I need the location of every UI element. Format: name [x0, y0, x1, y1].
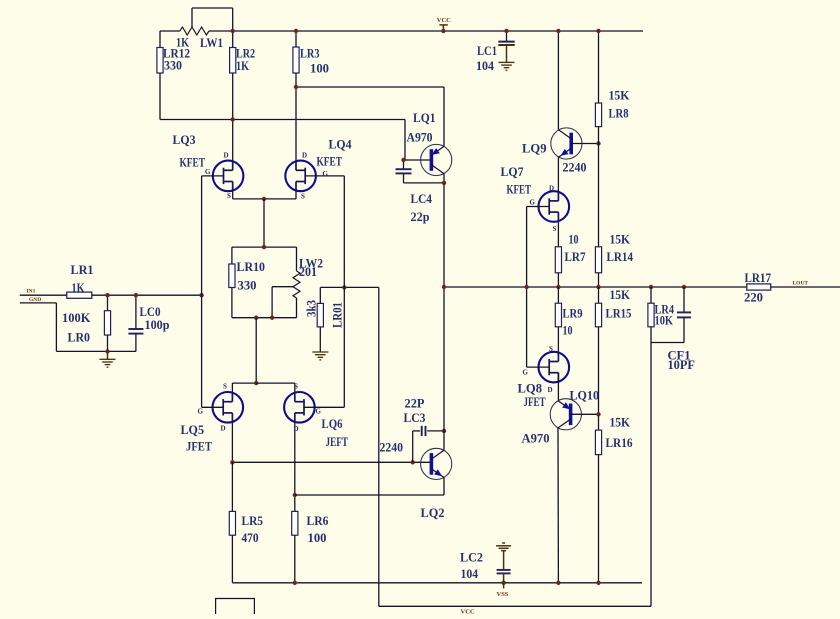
svg-text:D: D: [221, 425, 226, 433]
junction feedback/gate column: [342, 285, 346, 289]
ground LR01: [312, 352, 328, 360]
power symbol above LC2: [496, 543, 511, 551]
svg-text:2240: 2240: [563, 160, 587, 175]
potentiometer LW2 201: [293, 271, 300, 298]
resistor LR9 10: [555, 303, 561, 327]
wire VCC to LQ9 collector: [557, 31, 559, 130]
wire LW1 wiper top: [192, 7, 233, 9]
capacitor LC1 104: [498, 41, 514, 43]
wire LQ1 base: [405, 159, 431, 161]
junction LQ10 collector/VSS rail: [556, 581, 560, 585]
svg-text:15K: 15K: [610, 232, 631, 247]
junction LR2/top rail: [231, 29, 235, 33]
power VCC top: [439, 25, 447, 31]
junction LR3/LQ4 drain: [294, 85, 298, 89]
svg-text:LW1: LW1: [200, 35, 223, 50]
svg-text:D: D: [224, 152, 229, 160]
wire LQ2 emitter down: [443, 478, 445, 496]
svg-text:220: 220: [744, 290, 763, 305]
junction LQ5/LQ6 sources: [254, 381, 258, 385]
wire output rail: [444, 286, 747, 288]
wire LQ7 gate: [527, 206, 550, 208]
junction input/gate column: [199, 293, 203, 297]
wire LQ5 drain to LQ2 base: [232, 461, 430, 463]
junction LQ9 collector/top rail: [556, 29, 560, 33]
resistor LR01 3k3: [317, 303, 323, 327]
wire LR2 bottom lead: [232, 73, 234, 120]
resistor LR5 470: [229, 511, 235, 535]
svg-text:S: S: [294, 383, 298, 391]
wire LQ9 emitter to LQ7 drain: [557, 157, 559, 191]
svg-text:LQ2: LQ2: [421, 505, 445, 520]
wire LW2 wiper down: [271, 287, 273, 318]
junction LR16/VSS rail: [596, 581, 600, 585]
junction VCC/top rail: [441, 29, 445, 33]
wire LC3 left lead: [413, 430, 420, 432]
resistor LR0 100K: [104, 311, 110, 335]
junction LQ3/LQ4 sources: [262, 197, 266, 201]
svg-text:LR14: LR14: [607, 249, 634, 264]
junction LR3/top rail: [294, 29, 298, 33]
wire LQ4 source to tail: [264, 198, 296, 200]
svg-text:104: 104: [461, 566, 479, 581]
svg-text:LR15: LR15: [606, 306, 632, 321]
resistor LR16 15K: [595, 430, 601, 455]
wire LR3 bottom lead: [295, 73, 297, 87]
wire LQ5 gate: [202, 406, 224, 408]
wire LQ4 drain up to LR3: [295, 87, 297, 161]
wire VSS stub: [503, 583, 505, 589]
svg-text:S: S: [301, 193, 305, 201]
svg-text:G: G: [205, 168, 211, 176]
wire VSS rail: [232, 582, 642, 584]
svg-text:G: G: [316, 408, 322, 416]
svg-text:10: 10: [569, 232, 579, 247]
resistor LR6 100: [292, 511, 298, 535]
wire LR10 bottom lead: [231, 288, 233, 318]
wire LR6 top lead: [294, 495, 296, 511]
svg-text:S: S: [549, 345, 553, 353]
wire LQ6 source to tail: [256, 382, 295, 384]
wire LQ5 source: [231, 383, 233, 392]
junction bottom tail: [254, 316, 258, 320]
svg-text:S: S: [553, 225, 557, 233]
wire LW2 wiper: [272, 286, 293, 288]
resistor LR4 10K: [648, 303, 654, 327]
svg-text:S: S: [227, 192, 231, 200]
junction ground bus: [105, 349, 109, 353]
wire degeneration top: [232, 246, 297, 248]
wire LQ10 collector down to VSS rail: [557, 428, 559, 583]
svg-text:LR3: LR3: [300, 46, 320, 61]
svg-text:KFET: KFET: [317, 154, 343, 169]
junction LR0 top: [105, 293, 109, 297]
wire LQ4 source: [295, 191, 297, 199]
connector box bottom-left: [216, 599, 255, 615]
wire LQ1 emitter top: [443, 87, 445, 146]
wire feedback takeoff down: [650, 343, 652, 607]
wire LQ5 drain: [231, 423, 233, 463]
svg-text:10PF: 10PF: [668, 357, 696, 372]
mosfet LQ8 JFET: [539, 352, 570, 383]
transistor LQ10 A970 PNP: [550, 399, 581, 430]
junction LQ9 base: [596, 141, 600, 145]
svg-text:LC3: LC3: [404, 410, 426, 425]
svg-text:G: G: [523, 369, 529, 377]
junction LQ3 drain/bias rail: [231, 117, 235, 121]
wire LR3 top lead: [295, 31, 297, 47]
wire LQ6 source: [294, 383, 296, 392]
wire LC4 top lead: [403, 160, 405, 169]
junction LR4 top: [649, 285, 653, 289]
wire LR5 top lead: [231, 462, 233, 511]
svg-text:KFET: KFET: [180, 155, 206, 170]
junction LC3 / collector column: [442, 429, 446, 433]
svg-text:1K: 1K: [72, 280, 86, 295]
svg-text:201: 201: [299, 264, 317, 279]
wire LQ6 drain: [294, 423, 296, 495]
svg-text:LQ10: LQ10: [570, 388, 600, 403]
wire LQ1 collector down to output rail: [443, 174, 445, 287]
wire LQ8 drain to LQ10 emitter: [557, 373, 559, 400]
svg-text:330: 330: [238, 278, 257, 293]
junction wiper: [270, 316, 274, 320]
wire LR0 bottom lead: [107, 335, 109, 351]
junction VAS output: [442, 285, 446, 289]
svg-text:3k3: 3k3: [304, 300, 319, 317]
wire LQ5 source to tail: [232, 382, 256, 384]
svg-text:VCC: VCC: [437, 17, 451, 24]
svg-text:LR6: LR6: [307, 513, 329, 528]
wire LW2 top lead: [296, 247, 298, 271]
wire LQ3 drain: [232, 120, 234, 161]
wire LC2 top lead: [503, 551, 505, 571]
wire to input ground: [107, 351, 109, 359]
wire LR12 bottom lead: [159, 73, 161, 120]
wire collector column to LQ2: [443, 287, 445, 450]
junction CF1 top: [682, 285, 686, 289]
junction gate column / output rail: [524, 285, 528, 289]
wire LQ3 gate: [202, 175, 224, 177]
wire bias rail to LQ1 base: [160, 119, 405, 121]
wire LW1 wiper down: [232, 8, 234, 31]
svg-text:LR7: LR7: [565, 249, 586, 264]
svg-text:1K: 1K: [236, 58, 250, 73]
wire LR15 top lead: [598, 287, 600, 303]
svg-text:G: G: [323, 170, 329, 178]
svg-text:15K: 15K: [609, 88, 631, 103]
capacitor CF1 10PF: [677, 312, 691, 317]
svg-text:IN1: IN1: [27, 289, 36, 295]
svg-text:LR0: LR0: [68, 330, 91, 345]
wire feedback column down: [378, 287, 380, 606]
wire LQ4 gate to feedback column: [305, 175, 344, 177]
svg-text:D: D: [548, 386, 553, 394]
wire gate column LQ7-LQ8: [526, 207, 528, 368]
ground input: [100, 359, 116, 367]
svg-text:10K: 10K: [655, 313, 674, 328]
wire LR4/CF1 join: [651, 342, 684, 344]
svg-text:LOUT: LOUT: [793, 281, 809, 287]
svg-text:VSS: VSS: [497, 591, 509, 598]
svg-text:LR9: LR9: [563, 306, 583, 321]
wire LW1 wiper up: [191, 8, 193, 27]
svg-text:VCC: VCC: [461, 608, 475, 614]
svg-text:LC2: LC2: [460, 550, 483, 565]
wire LR01 bottom lead: [319, 327, 321, 352]
wire LR5 bottom lead: [231, 535, 233, 583]
svg-text:15K: 15K: [610, 415, 631, 430]
wire LQ3 source: [232, 191, 234, 199]
wire tail down to degeneration: [263, 199, 265, 247]
wire LC4 to collector column: [404, 182, 445, 184]
capacitor LC3 22P: [422, 426, 426, 436]
svg-text:LR17: LR17: [745, 270, 772, 285]
junction LC4 / collector: [442, 181, 446, 185]
svg-text:LQ4: LQ4: [329, 137, 352, 152]
svg-text:S: S: [223, 383, 227, 391]
capacitor LC0 100p: [128, 329, 143, 334]
wire bottom VCC rail: [379, 605, 651, 607]
resistor LR8 15K: [595, 103, 601, 127]
wire LQ10 base to LR16 column: [571, 413, 599, 415]
svg-text:100: 100: [310, 61, 329, 76]
wire LC2 bottom lead: [503, 573, 505, 583]
junction LC0 top: [134, 293, 138, 297]
wire LC3 down to base wire: [412, 431, 414, 462]
svg-text:LQ3: LQ3: [173, 132, 196, 147]
svg-text:JFET: JFET: [524, 394, 546, 409]
mosfet LQ3 KFET: [213, 161, 244, 192]
mosfet LQ6 JEFT: [284, 392, 315, 423]
svg-text:22p: 22p: [411, 209, 430, 224]
wire top VCC rail: [209, 30, 643, 32]
wire LR10 top lead: [231, 247, 233, 264]
wire LR0 top lead: [107, 295, 109, 311]
wire LC4 bottom lead: [403, 173, 405, 183]
svg-text:22P: 22P: [405, 396, 425, 411]
wire LR3 to LQ1 emitter: [296, 86, 444, 88]
wire GND stub: [20, 302, 57, 304]
svg-text:D: D: [302, 152, 307, 160]
svg-text:LR5: LR5: [242, 513, 264, 528]
wire CF1 bottom lead: [683, 317, 685, 342]
svg-text:LC4: LC4: [411, 191, 433, 206]
wire GND down: [55, 303, 57, 352]
wire LC0 top lead: [135, 295, 137, 329]
wire LR01 top lead: [319, 287, 321, 303]
wire LQ8 gate: [527, 366, 550, 368]
junction tail/degeneration: [262, 245, 266, 249]
potentiometer LW1 1K: [180, 27, 209, 35]
wire LR14 bottom lead: [598, 273, 600, 287]
wire input ground bus: [56, 350, 135, 352]
wire top rail left of LW1: [160, 30, 180, 32]
mosfet LQ5 JFET: [213, 392, 244, 423]
transistor LQ9 2240 NPN: [551, 128, 582, 159]
svg-text:JEFT: JEFT: [326, 434, 349, 449]
junction LQ5 drain: [230, 460, 234, 464]
capacitor LC2 104: [497, 570, 511, 574]
wire feedback node: [320, 286, 379, 288]
svg-text:LR01: LR01: [330, 302, 345, 328]
svg-text:15K: 15K: [610, 287, 631, 302]
svg-text:10: 10: [563, 323, 573, 338]
svg-text:A970: A970: [407, 130, 433, 145]
junction LQ6 drain / LQ2 emitter: [293, 493, 297, 497]
wire LR8 top lead: [598, 31, 600, 103]
wire LC3 right lead: [427, 430, 444, 432]
wire LR1 to gate column: [92, 294, 202, 296]
svg-text:100K: 100K: [62, 310, 91, 325]
junction LR6/VSS rail: [293, 581, 297, 585]
transistor LQ1 A970 PNP: [421, 144, 452, 175]
wire LR12 top lead: [159, 31, 161, 48]
wire IN1 input: [20, 294, 67, 296]
svg-text:LR8: LR8: [609, 106, 629, 121]
svg-text:D: D: [549, 185, 554, 193]
svg-text:LR16: LR16: [606, 435, 633, 450]
wire LR9 top lead: [557, 287, 559, 303]
ground LC1: [499, 62, 515, 70]
junction LR14/LR15: [596, 285, 600, 289]
svg-text:LQ1: LQ1: [413, 110, 436, 125]
svg-text:LC1: LC1: [477, 43, 497, 58]
svg-text:A970: A970: [522, 431, 550, 446]
junction LQ10 base: [596, 412, 600, 416]
svg-text:D: D: [294, 425, 299, 433]
wire LR4 top lead: [650, 287, 652, 303]
junction LC3 left lead: [411, 460, 415, 464]
transistor LQ2 2240 NPN: [421, 448, 452, 479]
junction LQ1 base / LC4: [401, 158, 405, 162]
junction LR7/LR9: [556, 285, 560, 289]
wire LQ6 gate: [304, 406, 344, 408]
wire LR15 bottom lead: [598, 327, 600, 430]
wire gate column LQ3-LQ5: [201, 176, 203, 407]
resistor LR14 15K: [595, 247, 601, 273]
wire LC1 to ground: [506, 45, 508, 62]
resistor LR10 330: [229, 264, 235, 288]
wire LR7 bottom lead: [557, 273, 559, 287]
wire degeneration bottom: [232, 317, 297, 319]
svg-text:LR1: LR1: [71, 262, 94, 277]
wire LR2 top lead: [232, 31, 234, 48]
svg-text:100p: 100p: [145, 317, 170, 332]
wire bottom tail down: [255, 318, 257, 383]
wire LR9 bottom to LQ8 source: [557, 327, 559, 352]
wire LQ3 source to tail: [233, 198, 264, 200]
svg-text:G: G: [530, 199, 536, 207]
wire gate column LQ4-LQ6: [343, 176, 345, 407]
resistor LR15 15K: [595, 303, 601, 327]
svg-text:100: 100: [308, 530, 327, 545]
svg-text:LQ6: LQ6: [322, 416, 343, 431]
resistor LR1 1K: [67, 292, 92, 298]
mosfet LQ4 KFET: [285, 161, 316, 192]
resistor LR2 1K: [230, 48, 236, 74]
svg-text:LQ7: LQ7: [501, 164, 524, 179]
wire LR4 bottom lead: [650, 327, 652, 343]
wire LC1 top lead: [506, 31, 508, 42]
wire LW2 bottom lead: [296, 298, 298, 318]
wire LR6 bottom lead: [294, 535, 296, 583]
wire to LOUT: [771, 286, 840, 288]
wire LR8 bottom lead: [598, 127, 600, 247]
resistor LR3 100: [293, 47, 299, 73]
svg-text:JFET: JFET: [186, 439, 212, 454]
wire LQ2 emitter to LR6: [295, 494, 444, 496]
wire LQ9 base to LR8 column: [571, 143, 598, 145]
svg-text:470: 470: [242, 530, 259, 545]
junction LC2/VSS rail: [501, 581, 505, 585]
svg-text:104: 104: [476, 58, 494, 73]
wire down to LQ1 base node: [404, 120, 406, 161]
svg-text:LQ5: LQ5: [181, 422, 205, 437]
mosfet LQ7 KFET: [539, 191, 570, 222]
svg-text:LQ9: LQ9: [522, 141, 547, 156]
resistor LR17 220: [747, 284, 771, 290]
resistor LR7 10: [555, 247, 561, 273]
wire LR16 bottom lead: [598, 455, 600, 583]
wire CF1 top lead: [683, 287, 685, 312]
svg-text:2240: 2240: [380, 440, 404, 455]
svg-text:G: G: [198, 408, 204, 416]
junction LR8/top rail: [596, 29, 600, 33]
svg-text:KFET: KFET: [507, 182, 532, 197]
svg-text:LR10: LR10: [237, 259, 266, 274]
svg-text:GND: GND: [29, 297, 41, 303]
capacitor LC4 22p: [396, 169, 412, 173]
wire LQ7 source to LR7: [557, 222, 559, 247]
svg-text:330: 330: [164, 58, 182, 73]
resistor LR12 330: [157, 48, 163, 74]
wire LC0 bottom lead: [135, 334, 137, 352]
junction LC1/top rail: [504, 29, 508, 33]
